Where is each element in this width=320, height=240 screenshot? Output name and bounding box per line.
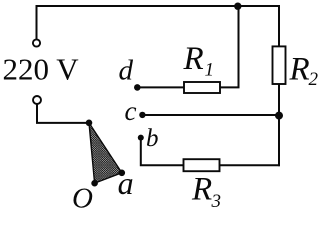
node c dot [139, 112, 145, 118]
junction dot on top wire [234, 2, 241, 9]
svg-text:O: O [72, 183, 93, 214]
svg-text:2: 2 [309, 69, 319, 90]
svg-text:a: a [118, 165, 134, 201]
svg-text:R: R [191, 171, 212, 207]
svg-text:d: d [119, 55, 134, 87]
svg-text:c: c [125, 96, 137, 126]
switch wiper triangle (hatched) [89, 123, 122, 183]
svg-text:R: R [183, 41, 204, 77]
node d dot [134, 84, 141, 91]
svg-text:220 V: 220 V [3, 52, 80, 87]
switch dot at O vertex [91, 180, 98, 187]
switch pivot dot O [86, 120, 93, 127]
wire node b down and to R3 left [141, 140, 184, 165]
terminal circle bottom (220 V) [33, 96, 41, 104]
resistor R1 box [184, 82, 220, 93]
switch dot at a vertex [119, 170, 126, 177]
svg-text:R: R [289, 51, 310, 87]
wire R2 bottom lead down through junction to R3 level [278, 84, 280, 165]
wire node c to right vertical [146, 114, 280, 116]
terminal circle top (220 V) [33, 39, 40, 46]
svg-text:1: 1 [205, 60, 215, 81]
node b dot [138, 135, 144, 141]
svg-text:3: 3 [211, 191, 222, 212]
wire top-left vertical from top terminal up [36, 6, 38, 39]
wire from node d to R1 left [141, 86, 185, 88]
wire from top junction down to R1 right [221, 6, 239, 87]
resistor R2 box [273, 46, 286, 84]
wire R3 right lead [220, 164, 280, 166]
wire bottom terminal down and right to switch pivot [37, 104, 86, 123]
junction dot at c wire and R2 bottom [275, 112, 283, 120]
svg-text:b: b [146, 125, 159, 152]
resistor R3 box [184, 159, 220, 171]
wire top horizontal [37, 5, 280, 7]
wire right vertical to R2 top [278, 6, 280, 46]
